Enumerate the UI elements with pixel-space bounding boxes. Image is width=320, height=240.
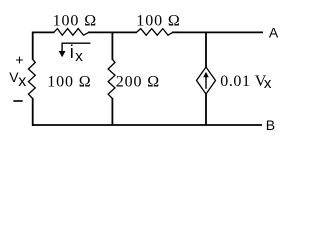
resistor 100 ohm left vertical zigzag (28, 59, 35, 98)
wire left upper segment (32, 32, 34, 60)
dependent current source diamond 0.01Vx (197, 67, 216, 94)
svg-text:i: i (70, 42, 74, 62)
resistor 100 ohm top-right zigzag (137, 29, 173, 36)
wire current-source branch upper (205, 32, 207, 67)
current source arrow (205, 76, 207, 89)
label minus (Vx polarity minus) (13, 100, 22, 102)
svg-text:B: B (266, 117, 275, 133)
svg-text:x: x (75, 48, 83, 65)
current arrow ix (62, 43, 90, 51)
resistor 100 ohm top-left zigzag (54, 29, 89, 36)
wire middle branch lower (111, 98, 113, 125)
svg-text:100 Ω: 100 Ω (53, 12, 97, 29)
svg-text:0.01 V: 0.01 V (220, 73, 267, 90)
svg-text:+: + (15, 51, 23, 67)
svg-text:x: x (264, 75, 272, 92)
wire middle branch upper (111, 32, 113, 59)
wire current-source branch lower (205, 94, 207, 126)
svg-text:100 Ω: 100 Ω (47, 73, 91, 90)
wire top left segment (32, 31, 55, 33)
svg-text:x: x (18, 73, 26, 90)
svg-text:200 Ω: 200 Ω (116, 73, 160, 90)
svg-text:A: A (269, 25, 279, 41)
wire top right segment to node A (172, 31, 263, 33)
svg-text:100 Ω: 100 Ω (136, 12, 180, 29)
wire top middle segment (88, 31, 137, 33)
wire left lower segment (32, 98, 34, 126)
wire bottom to node B (32, 124, 262, 126)
resistor 200 ohm middle vertical zigzag (108, 59, 115, 98)
